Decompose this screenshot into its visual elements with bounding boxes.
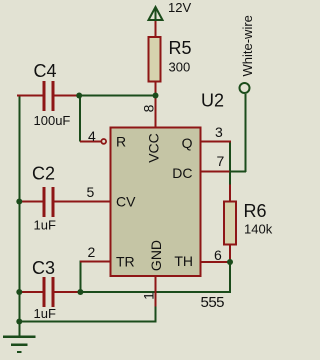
ground	[3, 336, 36, 354]
svg-text:1uF: 1uF	[34, 306, 56, 321]
junction dot C4/R5 rail	[76, 93, 82, 99]
junction dot C2 left	[16, 199, 22, 205]
wire: TR drop vertical green	[80, 261, 82, 293]
wire: pin3 drop vertical green	[229, 141, 231, 186]
svg-text:100uF: 100uF	[34, 113, 71, 128]
svg-text:GND: GND	[148, 240, 164, 271]
svg-text:R5: R5	[169, 38, 192, 58]
junction dot C3 right / TR	[77, 289, 83, 295]
pin 1 (GND) stub	[155, 276, 157, 307]
svg-text:C4: C4	[34, 61, 57, 81]
resistor R6	[224, 185, 236, 261]
svg-text:U2: U2	[201, 91, 224, 111]
resistor R5	[149, 37, 161, 96]
pin 2 (TR) wire	[80, 261, 110, 263]
wire: ground horizontal green y=321.5	[18, 321, 156, 323]
pin 4 (R) wire + bubble	[80, 139, 106, 144]
svg-text:R6: R6	[244, 201, 267, 221]
svg-text:4: 4	[88, 128, 96, 144]
pin 7 (DC) wire	[201, 171, 230, 173]
svg-text:140k: 140k	[244, 222, 273, 237]
capacitor C4	[17, 81, 78, 111]
svg-text:TR: TR	[116, 254, 135, 270]
svg-text:CV: CV	[116, 194, 136, 210]
svg-text:1uF: 1uF	[34, 218, 56, 233]
wire: TH drop vertical green	[229, 262, 231, 293]
wire: C4 top horizontal green from junction to R5 junction	[79, 95, 156, 97]
wire: white-wire horizontal green	[229, 171, 246, 173]
svg-text:8: 8	[141, 104, 157, 112]
pin 8 stub (VCC)	[155, 96, 157, 127]
pin 3 (Q) wire	[201, 141, 232, 143]
svg-text:VCC: VCC	[146, 133, 162, 163]
svg-text:C3: C3	[32, 258, 55, 278]
pin 5 (CV) wire	[56, 201, 110, 203]
capacitor C2	[19, 187, 110, 217]
svg-text:300: 300	[169, 60, 191, 75]
wire: red from power to R5	[155, 21, 157, 36]
svg-text:1: 1	[141, 292, 157, 300]
svg-text:White-wire: White-wire	[240, 15, 255, 76]
svg-text:TH: TH	[174, 253, 193, 269]
svg-text:2: 2	[88, 244, 96, 260]
svg-text:Q: Q	[182, 135, 193, 151]
svg-text:3: 3	[215, 124, 223, 140]
pin 6 (TH) wire	[201, 261, 228, 263]
junction dot C3 left	[16, 289, 22, 295]
svg-text:555: 555	[201, 294, 225, 311]
svg-text:R: R	[116, 134, 126, 150]
svg-text:5: 5	[87, 184, 95, 200]
svg-text:7: 7	[217, 153, 225, 169]
capacitor C3	[19, 277, 80, 307]
wire: TR/TH horizontal green y=291.5	[80, 291, 231, 293]
wire: pin1 tail vertical green	[155, 307, 157, 322]
wire: left vertical rail (green)	[18, 95, 20, 337]
svg-text:DC: DC	[172, 165, 192, 181]
chip U2 (555)	[111, 128, 201, 277]
terminal White-wire	[240, 83, 250, 93]
wire: pin4 branch vertical green	[79, 95, 81, 142]
power symbol 12V	[149, 7, 163, 21]
wire: white-wire drop vertical green	[245, 94, 247, 172]
svg-text:C2: C2	[32, 164, 55, 184]
junction dot TH / R6	[227, 259, 233, 265]
junction dot ground rail	[16, 319, 22, 325]
svg-text:12V: 12V	[168, 0, 191, 15]
svg-text:6: 6	[214, 247, 222, 263]
junction dot R5/pin8	[153, 93, 159, 99]
